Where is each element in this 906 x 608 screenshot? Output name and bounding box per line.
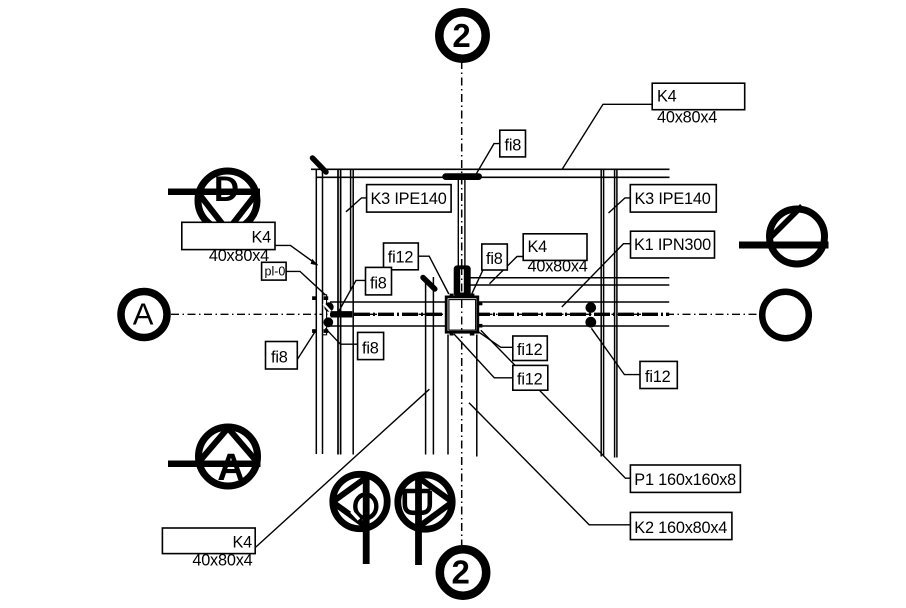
svg-text:A: A [217,447,244,489]
svg-text:2: 2 [452,554,470,591]
svg-text:fi8: fi8 [271,349,288,367]
svg-text:D: D [214,170,239,209]
svg-text:fi12: fi12 [517,371,543,389]
svg-text:40x80x4: 40x80x4 [209,247,269,265]
svg-text:A: A [133,297,154,332]
svg-text:K3 IPE140: K3 IPE140 [635,190,711,208]
svg-text:2: 2 [452,17,470,54]
svg-text:K4: K4 [232,534,252,552]
svg-text:40x80x4: 40x80x4 [657,109,717,127]
svg-text:fi12: fi12 [645,368,671,386]
svg-text:fi8: fi8 [486,250,503,268]
svg-text:40x80x4: 40x80x4 [192,552,252,570]
svg-text:40x80x4: 40x80x4 [528,257,588,275]
svg-text:K3 IPE140: K3 IPE140 [371,190,447,208]
svg-text:fi8: fi8 [362,339,379,357]
svg-text:K4: K4 [251,229,271,247]
svg-text:pl-0: pl-0 [265,265,286,279]
svg-text:fi8: fi8 [505,137,522,155]
svg-text:K4: K4 [657,88,677,106]
svg-text:K1 IPN300: K1 IPN300 [634,236,711,254]
svg-text:fi12: fi12 [388,249,414,267]
svg-text:P1 160x160x8: P1 160x160x8 [634,471,736,489]
svg-text:fi8: fi8 [370,274,387,292]
svg-text:K2 160x80x4: K2 160x80x4 [634,519,727,537]
svg-text:fi12: fi12 [517,341,543,359]
svg-text:K4: K4 [528,238,548,256]
